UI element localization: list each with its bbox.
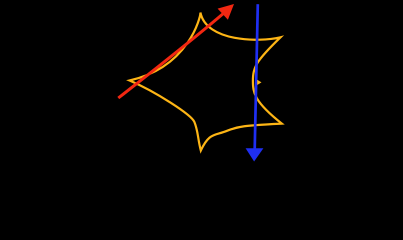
red arrowhead <box>218 4 234 20</box>
red arrow shaft (slightly curved) <box>118 10 227 98</box>
orange 5-cusped hypocycloid-like closed curve <box>130 13 282 151</box>
blue arrow shaft <box>255 4 258 149</box>
blue arrowhead <box>246 148 264 161</box>
orange direction marker on curve <box>257 80 261 85</box>
